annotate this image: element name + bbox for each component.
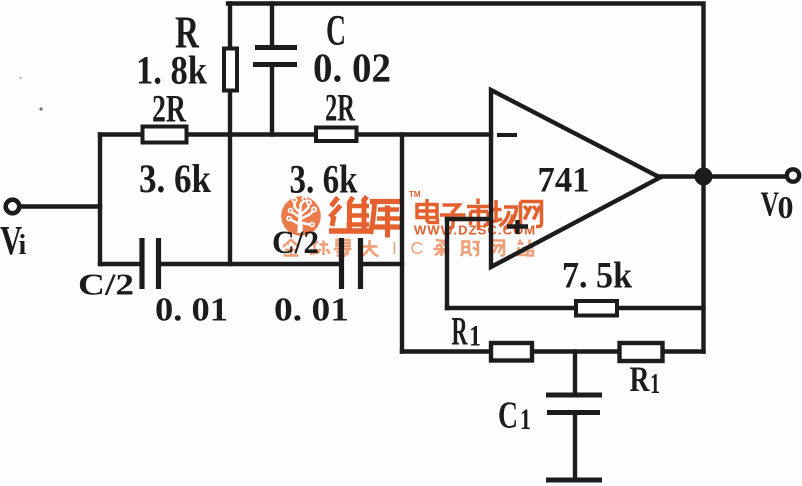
wire: 7.5k feedback row bbox=[447, 306, 704, 310]
resistor 7.5k box bbox=[576, 301, 617, 316]
resistor R (1.8k) vertical box bbox=[224, 49, 237, 91]
svg-text:1: 1 bbox=[650, 368, 660, 400]
wire: bottom cap line segment 2 bbox=[161, 262, 339, 266]
wire: bottom cap line segment 3 bbox=[363, 262, 402, 266]
svg-text:0. 01: 0. 01 bbox=[274, 292, 349, 329]
op-amp U1 741 triangle bbox=[491, 90, 660, 267]
wire: bottom cap line segment 1 bbox=[100, 262, 140, 266]
wire: C1 stem top bbox=[573, 352, 577, 394]
svg-text:R: R bbox=[452, 309, 469, 354]
capacitor C/2 #1 plates bbox=[142, 238, 159, 289]
svg-text:7. 5k: 7. 5k bbox=[562, 256, 632, 297]
svg-text:2R: 2R bbox=[152, 88, 187, 131]
capacitor C (0.02) plates bbox=[253, 48, 297, 65]
站 bbox=[517, 240, 534, 256]
svg-text:741: 741 bbox=[538, 160, 590, 200]
resistor 2R #2 (3.6k) box bbox=[316, 128, 357, 142]
wire: top rail + right vertical bbox=[228, 4, 704, 352]
svg-text:0. 02: 0. 02 bbox=[313, 45, 391, 91]
wire: mid vertical (cap node to R1 row) bbox=[400, 135, 404, 352]
市 bbox=[476, 199, 480, 205]
电子市场网 bbox=[417, 199, 542, 231]
wire: R1 row bbox=[402, 349, 704, 353]
wire: R bottom to cap line bbox=[228, 93, 232, 264]
terminal V0 circle bbox=[787, 169, 799, 181]
logo circle bbox=[281, 196, 321, 236]
场 bbox=[494, 200, 498, 223]
全球最大IC采购网站 row bbox=[283, 240, 379, 257]
库 bbox=[370, 202, 403, 238]
子 bbox=[443, 205, 460, 214]
svg-text:TM: TM bbox=[409, 190, 421, 199]
terminal Vi circle bbox=[6, 200, 20, 214]
resistor R1 #1 box bbox=[491, 343, 532, 361]
svg-text:i: i bbox=[19, 230, 27, 261]
大 bbox=[361, 240, 379, 257]
svg-text:I: I bbox=[392, 238, 397, 258]
wire: top node line (minus input row) bbox=[100, 132, 491, 136]
wire: C bottom stub bbox=[270, 66, 274, 135]
球 bbox=[310, 241, 330, 256]
wire: R top stub bbox=[228, 4, 232, 47]
resistor R1 #2 box bbox=[620, 343, 663, 361]
svg-text:C/2: C/2 bbox=[272, 225, 319, 261]
svg-text:2R: 2R bbox=[325, 87, 356, 130]
op-amp minus input symbol bbox=[497, 133, 517, 137]
svg-text:0: 0 bbox=[778, 189, 794, 225]
svg-text:V: V bbox=[761, 185, 780, 224]
电 bbox=[417, 205, 437, 218]
svg-text:1: 1 bbox=[520, 403, 531, 436]
svg-text:3. 6k: 3. 6k bbox=[139, 156, 212, 201]
wire: C1 stem bottom bbox=[573, 414, 577, 478]
wire: plus input wire bbox=[447, 217, 491, 221]
op-amp plus input symbol bbox=[507, 220, 528, 234]
wire: plus input drop bbox=[445, 219, 449, 308]
capacitor C/2 #2 plates bbox=[342, 238, 361, 289]
wire: output wire bbox=[660, 174, 786, 178]
金 bbox=[283, 240, 299, 256]
capacitor C1 plates bbox=[546, 395, 602, 480]
维 bbox=[329, 197, 370, 232]
svg-text:3. 6k: 3. 6k bbox=[290, 157, 359, 202]
网 bbox=[521, 202, 542, 227]
最 bbox=[334, 240, 352, 257]
svg-text:R: R bbox=[630, 359, 651, 399]
svg-text:C/2: C/2 bbox=[78, 267, 134, 302]
node: output junction dot bbox=[695, 168, 713, 186]
svg-text:1: 1 bbox=[469, 320, 481, 353]
采 bbox=[434, 240, 450, 256]
svg-text:1. 8k: 1. 8k bbox=[136, 48, 208, 93]
svg-text:0. 01: 0. 01 bbox=[155, 292, 228, 329]
svg-text:C: C bbox=[498, 395, 518, 437]
svg-text:C: C bbox=[411, 238, 424, 258]
网 bbox=[491, 241, 505, 257]
wire: left vertical bbox=[98, 135, 102, 265]
购 bbox=[461, 242, 479, 257]
wire: C top stub bbox=[270, 4, 274, 47]
wire: Vi input wire bbox=[21, 204, 100, 208]
resistor 2R #1 (3.6k) box bbox=[143, 127, 187, 143]
